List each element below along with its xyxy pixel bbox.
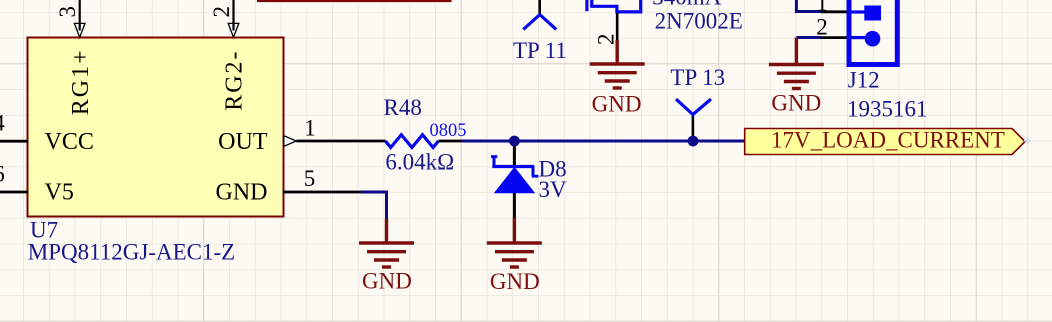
svg-text:0805: 0805 xyxy=(430,121,467,141)
svg-text:2: 2 xyxy=(594,34,619,46)
connector J12 pin2 round pad xyxy=(865,31,881,47)
pin 2 input arrow xyxy=(228,23,239,37)
test point TP11 xyxy=(523,15,556,30)
resistor R48 xyxy=(385,135,438,148)
svg-text:GND: GND xyxy=(771,91,821,116)
J12 pin 1 wire navy xyxy=(796,0,821,12)
svg-text:1: 1 xyxy=(816,0,828,16)
wire D8 cathode lead xyxy=(513,146,516,166)
net port 17V_LOAD_CURRENT xyxy=(745,129,1025,155)
svg-text:1: 1 xyxy=(304,115,316,140)
pin 2 wire xyxy=(232,0,234,31)
ground symbol U7 GND pin xyxy=(359,219,414,267)
svg-text:1935161: 1935161 xyxy=(847,97,928,122)
J12 pin 1 wire black xyxy=(821,10,847,13)
resistor R48 right lead xyxy=(438,140,462,143)
svg-text:GND: GND xyxy=(362,269,412,294)
ground symbol D8 xyxy=(487,218,542,267)
IC U7 body xyxy=(28,38,284,217)
pin 4 wire xyxy=(0,140,29,143)
svg-text:2: 2 xyxy=(816,14,828,39)
transistor source pin wire xyxy=(616,13,619,40)
test point TP13 stem xyxy=(692,115,695,137)
junction at D8 xyxy=(509,136,520,147)
svg-text:3V: 3V xyxy=(539,177,568,202)
svg-text:TP 11: TP 11 xyxy=(513,38,567,63)
svg-text:4: 4 xyxy=(0,111,5,136)
connector J12 outline xyxy=(849,0,897,65)
pin 1 OUT arrow xyxy=(284,136,297,147)
svg-text:6.04kΩ: 6.04kΩ xyxy=(385,150,454,175)
wire D8 anode lead xyxy=(513,192,516,218)
svg-text:2: 2 xyxy=(209,6,234,18)
pin 1 wire xyxy=(296,140,385,143)
svg-text:TP 13: TP 13 xyxy=(670,65,725,90)
J12 pin 2 wire black xyxy=(821,36,847,39)
ground symbol transistor xyxy=(590,40,645,88)
svg-text:5: 5 xyxy=(304,166,316,191)
svg-text:GND: GND xyxy=(490,269,540,294)
svg-text:GND: GND xyxy=(216,180,268,206)
transistor Q 2N7002E partial channel bar xyxy=(585,0,588,11)
J12 pin 2 wire navy xyxy=(796,36,821,39)
svg-text:MPQ8112GJ-AEC1-Z: MPQ8112GJ-AEC1-Z xyxy=(28,240,235,265)
svg-text:VCC: VCC xyxy=(45,129,94,155)
connector J12 pin1 pad stub xyxy=(851,10,865,13)
connector J12 pin2 pad stub xyxy=(851,36,865,39)
svg-text:6: 6 xyxy=(0,162,5,187)
svg-text:V5: V5 xyxy=(45,180,74,206)
wire pin5 to ground xyxy=(361,192,387,219)
svg-text:R48: R48 xyxy=(384,95,422,120)
svg-text:J12: J12 xyxy=(848,68,880,93)
junction at TP13 xyxy=(688,136,699,147)
cursor cross at port tip xyxy=(1024,137,1031,144)
pin 3 input arrow xyxy=(74,23,85,37)
pin 5 wire xyxy=(283,191,361,194)
pin 6 wire xyxy=(0,191,29,194)
wire main net xyxy=(462,140,746,143)
svg-text:GND: GND xyxy=(592,91,642,116)
test point TP13 xyxy=(676,99,711,114)
svg-text:3: 3 xyxy=(55,6,80,18)
ground symbol J12 xyxy=(769,38,824,89)
component body edge (cut off at top) xyxy=(257,0,452,2)
pin 3 wire xyxy=(79,0,81,31)
svg-text:RG1+: RG1+ xyxy=(68,48,94,115)
connector J12 pin1 square pad xyxy=(864,6,881,21)
svg-text:RG2-: RG2- xyxy=(222,49,248,110)
zener diode D8 xyxy=(491,156,538,194)
transistor Q 2N7002E partial source path xyxy=(592,0,641,12)
svg-text:17V_LOAD_CURRENT: 17V_LOAD_CURRENT xyxy=(771,128,1005,153)
svg-text:2N7002E: 2N7002E xyxy=(655,9,743,34)
test point TP11 wire xyxy=(538,0,541,15)
svg-text:OUT: OUT xyxy=(218,129,268,155)
